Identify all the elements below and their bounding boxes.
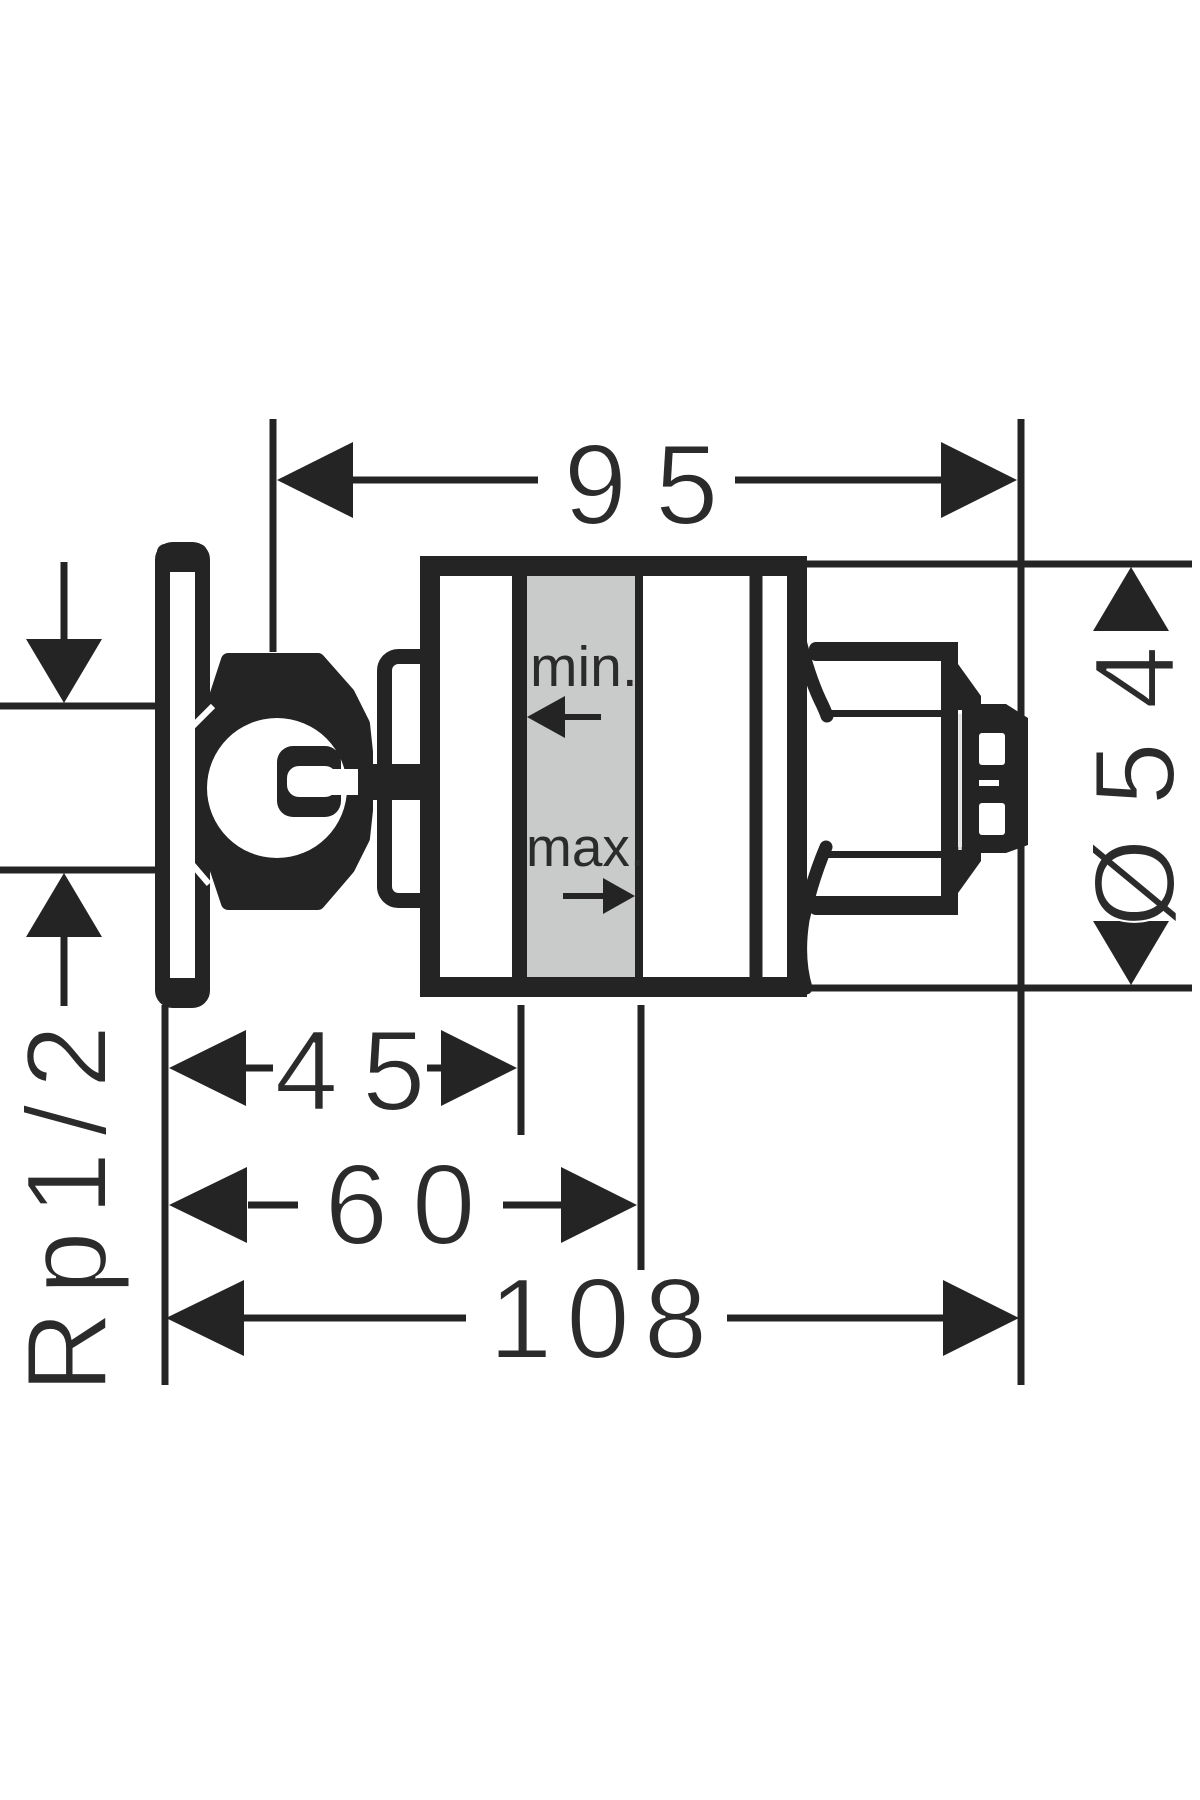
valve body outer bbox=[430, 566, 797, 987]
trim inner line top bbox=[822, 710, 941, 717]
spigot collar bbox=[960, 704, 1028, 853]
dimension 108 bbox=[166, 1280, 1019, 1356]
mounting bracket bbox=[385, 657, 434, 901]
set screw (C shape) bbox=[277, 746, 341, 817]
dia 54 arrow down bbox=[1093, 921, 1169, 985]
trim bottom bar bbox=[809, 896, 949, 915]
divider left (min depth) bbox=[512, 576, 527, 977]
left pipe arrow down bbox=[26, 562, 102, 703]
gray depth band bbox=[527, 576, 635, 977]
left pipe dimension line top bbox=[0, 703, 158, 710]
svg-text:min.: min. bbox=[530, 635, 638, 699]
trim flare bottom bbox=[801, 847, 826, 988]
extension line left of 45/60/108 bbox=[162, 1005, 169, 1385]
trim inner line bottom bbox=[822, 851, 941, 858]
dimension 95 arrow right bbox=[941, 442, 1017, 518]
extension line right (95/108) bbox=[1018, 419, 1025, 1385]
divider right (max depth) bbox=[635, 576, 643, 977]
svg-text:Ø54: Ø54 bbox=[1072, 613, 1199, 927]
stem over bracket bbox=[380, 764, 438, 800]
dimension 45 bbox=[169, 1030, 517, 1106]
trim right vertical bbox=[941, 642, 958, 915]
dia 54 extension line top bbox=[806, 561, 1192, 568]
trim flare top bbox=[797, 628, 827, 716]
inner wall right bbox=[750, 574, 763, 977]
dia 54 arrow up bbox=[1093, 567, 1169, 631]
svg-text:Rp1/2: Rp1/2 bbox=[4, 1009, 131, 1393]
svg-text:95: 95 bbox=[564, 422, 747, 549]
svg-text:60: 60 bbox=[325, 1142, 500, 1269]
nut bore bbox=[207, 718, 347, 858]
wall plate bbox=[157, 544, 207, 1002]
svg-text:45: 45 bbox=[275, 1008, 450, 1135]
dimension 60 bbox=[169, 1167, 637, 1243]
svg-text:max.: max. bbox=[526, 816, 645, 878]
left pipe dimension line bottom bbox=[0, 867, 158, 874]
min arrow bbox=[527, 696, 601, 738]
dimension 95 arrow left bbox=[277, 442, 353, 518]
plate/nut highlight slash bottom bbox=[173, 842, 209, 884]
extension line left of 95 bbox=[270, 419, 277, 652]
dia 54 extension line bottom bbox=[810, 985, 1192, 992]
dimension 95 line segments bbox=[351, 477, 538, 484]
extension line right of 45 bbox=[518, 1005, 525, 1135]
valve stem bbox=[358, 764, 438, 800]
plate/nut highlight slash top bbox=[175, 706, 213, 744]
svg-text:108: 108 bbox=[489, 1256, 721, 1383]
trim step bottom bbox=[941, 847, 981, 893]
trim top bar bbox=[809, 642, 949, 661]
extension line right of 60 bbox=[638, 1005, 645, 1270]
octagon nut bbox=[207, 660, 366, 903]
trim step top bbox=[941, 664, 981, 710]
left pipe arrow up bbox=[26, 873, 102, 1006]
max arrow bbox=[563, 878, 635, 914]
